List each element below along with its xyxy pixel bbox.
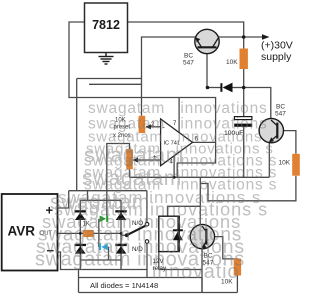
wire R4 bottom to ground	[236, 276, 238, 293]
wire bridge right bottom drop	[120, 260, 122, 270]
diode D8 flyback (points up)	[173, 216, 183, 251]
node junction mid rail left	[79, 232, 82, 235]
IC 7812 regulator box	[85, 3, 128, 53]
wire bridge top feed	[87, 191, 89, 201]
wire main mid rail	[130, 176, 270, 178]
wire R2 bottom return to output rail	[200, 176, 296, 201]
svg-text:innovatio: innovatio	[152, 261, 239, 283]
svg-text:swagatam: swagatam	[50, 191, 150, 214]
wire N/O contact drop	[146, 191, 148, 223]
transistor Q3 BC547 bottom	[190, 224, 214, 248]
wire bottom ground rail	[79, 292, 238, 294]
diode D3 bridge bottom-left	[75, 244, 86, 254]
wire cyan to bridge bottom stub	[108, 247, 110, 260]
svg-text:supply: supply	[261, 51, 292, 63]
wire box top edge B	[89, 83, 142, 85]
svg-text:BC: BC	[276, 104, 285, 111]
op-amp U1 IC 741	[151, 119, 199, 166]
wire wiper2 to pin3	[133, 159, 160, 161]
wire T3 base to R4	[207, 237, 237, 260]
transistor Q2 BC547 right	[259, 118, 283, 142]
wire label box right edge	[201, 278, 203, 293]
resistor R2 10K (right edge)	[292, 154, 300, 176]
preset P2 10K	[126, 149, 133, 169]
wire label box top	[79, 277, 203, 279]
wire relay coil bottom drop	[158, 252, 160, 270]
wire pin4 stub	[173, 156, 175, 178]
relay contact N/D circle	[145, 240, 149, 244]
diode D5 green (points right)	[100, 216, 109, 223]
wire bridge right rail	[120, 200, 122, 260]
wire minus drop to label box	[78, 270, 80, 278]
svg-text:All diodes = 1N4148: All diodes = 1N4148	[90, 281, 158, 290]
svg-text:swagatam innovations: swagatam innovations	[88, 100, 268, 117]
wire pin7 stub	[178, 98, 180, 133]
wire T2 emitter to rail	[268, 142, 270, 177]
diode D2 bridge top-right	[115, 210, 126, 220]
svg-text:AVR: AVR	[8, 224, 36, 239]
wire N/D contact drop	[146, 243, 148, 277]
wire T1 collector	[219, 36, 244, 38]
preset P1 wiper arrow	[146, 124, 151, 129]
resistor R1 10K (supply rail)	[240, 49, 248, 70]
node junction diode right	[242, 86, 246, 90]
wire bridge left rail	[79, 200, 81, 260]
node junction at supply rail	[242, 35, 246, 39]
wire T1 base down	[206, 49, 208, 88]
wire preset2 top to riser	[107, 144, 130, 216]
capacitor C1 100uF	[234, 117, 252, 127]
wire mid rail right of 1K	[93, 232, 121, 234]
diode D6 cyan (points left)	[99, 244, 108, 251]
svg-text:7812: 7812	[92, 18, 120, 32]
svg-text:547: 547	[183, 60, 194, 67]
wire diode D7 right lead	[233, 87, 244, 89]
wire box top edge A	[77, 78, 142, 80]
wire 12V rail from 7812 left pin	[69, 22, 216, 177]
wire T2 base to R2	[278, 131, 296, 154]
diode D1 bridge top-left	[75, 210, 86, 220]
ground symbol under 7812	[99, 53, 114, 65]
wire T1 emitter to preset1 rail	[142, 37, 196, 116]
wire op-amp output pin6	[193, 141, 216, 143]
wire lever pivot feed	[121, 234, 127, 236]
node junction mid rail right	[120, 232, 123, 235]
resistor R4 10K (bottom)	[234, 259, 241, 276]
wire label box left edge	[78, 278, 80, 293]
svg-text:swagatam: swagatam	[82, 167, 182, 190]
svg-text:swagatam: swagatam	[84, 144, 184, 167]
wire green cyan anode stub	[98, 219, 100, 247]
wire left rail down to N/O feed	[76, 79, 78, 191]
resistor R3 1K (horizontal)	[83, 230, 93, 237]
relay lever pivot	[125, 233, 129, 237]
wire AVR out mid rail left	[58, 232, 84, 234]
svg-text:10K: 10K	[226, 59, 238, 66]
preset P2 wiper arrow	[133, 157, 138, 162]
relay lever	[127, 226, 146, 236]
diode D7 (horizontal, cathode left)	[220, 83, 232, 93]
wire T3 emitter drop to ground	[201, 249, 203, 293]
transistor Q1 BC547 top	[195, 29, 219, 53]
wire supply rail resistor bottom to cap	[243, 69, 245, 117]
wire T3 collector from rail	[199, 177, 201, 224]
relay contact N/O circle	[145, 222, 149, 226]
svg-text:547: 547	[275, 111, 286, 118]
wire T2 collector feed	[244, 88, 271, 120]
wire N/O feed horizontal	[69, 190, 147, 192]
svg-text:BC: BC	[184, 53, 193, 60]
svg-text:(+)30V: (+)30V	[261, 40, 293, 52]
node junction pin4 rail	[173, 176, 176, 179]
wire bridge left bottom drop	[79, 260, 81, 270]
wire preset2 bottom to rail	[129, 169, 131, 177]
svg-text:10K: 10K	[279, 160, 291, 167]
wire 7812 right pin to supply rail	[128, 22, 244, 37]
wire wiper1 to pin2	[146, 126, 160, 128]
wire supply rail resistor top	[243, 37, 245, 49]
watermark swagatam innovations	[35, 100, 277, 283]
wire AVR minus to bottom	[58, 252, 148, 270]
wire diode D7 left lead	[208, 87, 221, 89]
wire supply arrow line	[244, 36, 264, 38]
wire bridge top edge	[80, 199, 121, 201]
node junction diode left	[206, 86, 210, 90]
wire bridge bottom edge	[80, 259, 121, 261]
wire relay coil top riser	[168, 206, 201, 216]
preset P1 10K	[139, 116, 146, 133]
diode D4 bridge bottom-right	[115, 244, 126, 254]
wire AVR plus riser	[58, 191, 69, 208]
AVR box	[2, 194, 58, 271]
wire cap bottom to rail	[243, 127, 245, 178]
supply arrow head	[262, 34, 270, 40]
wire coil bottom to T3 emitter	[159, 269, 202, 271]
relay coil box	[159, 216, 179, 251]
